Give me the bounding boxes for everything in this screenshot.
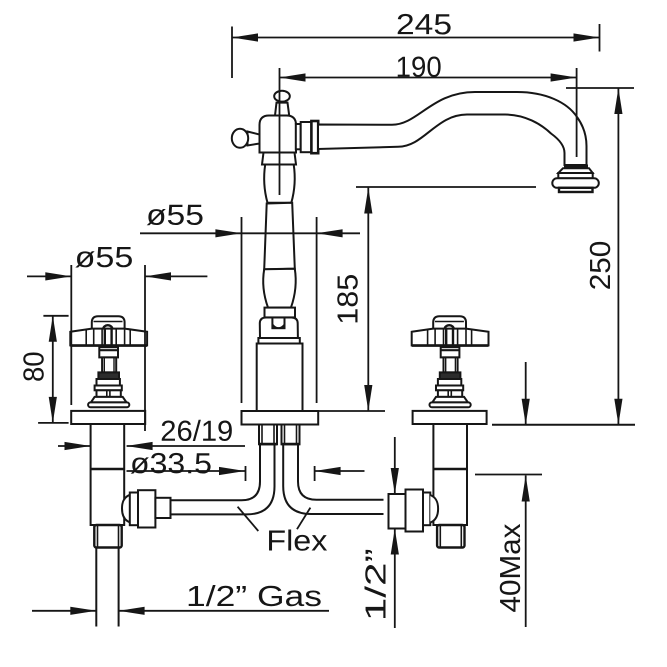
stem arch (103, 325, 112, 329)
dimension 190 (280, 52, 577, 195)
svg-text:ø55: ø55 (75, 242, 134, 274)
bell base (430, 402, 471, 407)
dimension 1/2 right (360, 437, 399, 628)
bottom nipple (94, 525, 121, 548)
left handle group (70, 316, 147, 547)
column baluster 1 (264, 165, 295, 203)
ring 2 (438, 379, 461, 386)
right handle group (412, 316, 489, 547)
svg-text:80: 80 (18, 351, 50, 382)
svg-text:1/2” Gas: 1/2” Gas (186, 581, 322, 613)
svg-text:ø55: ø55 (146, 200, 204, 232)
center tail nipple left (259, 425, 277, 445)
svg-text:250: 250 (585, 241, 617, 291)
dimension 80 (18, 316, 68, 423)
base plate (71, 411, 145, 424)
cross wings (70, 329, 147, 346)
body band (258, 338, 299, 344)
right union fitting (389, 490, 439, 532)
nozzle cap (559, 188, 593, 192)
dimension center ø55 (140, 200, 360, 403)
left union fitting (122, 490, 171, 527)
spout ball knob (274, 91, 290, 102)
spout tube (318, 92, 587, 165)
svg-text:ø33.5: ø33.5 (130, 448, 212, 480)
flex leader left (238, 507, 259, 531)
dimension 250 (566, 88, 634, 425)
base plate (413, 411, 487, 424)
cartridge notch (272, 318, 284, 329)
dark ring (98, 372, 119, 379)
spout head body (260, 116, 297, 153)
nozzle band (558, 173, 592, 178)
svg-text:190: 190 (396, 52, 442, 84)
side knob (232, 129, 248, 148)
svg-text:245: 245 (396, 9, 452, 41)
svg-text:1/2”: 1/2” (360, 548, 392, 621)
dimension 1/2 Gas (32, 581, 329, 615)
bottom nipple (437, 525, 464, 548)
left tail pipe (96, 548, 118, 627)
block row (438, 390, 462, 397)
nozzle torus (552, 178, 599, 188)
stem arch (445, 325, 454, 329)
dimension 185 (319, 187, 537, 411)
svg-text:185: 185 (333, 274, 365, 325)
cross wings (412, 329, 489, 346)
bonnet neck (441, 347, 460, 357)
nozzle end band (564, 165, 588, 169)
cartridge top (260, 318, 298, 339)
block row (97, 390, 121, 397)
svg-text:40Max: 40Max (495, 523, 527, 613)
flex hose right (283, 444, 383, 514)
spout ball stem (275, 103, 289, 116)
bonnet neck (99, 347, 118, 357)
side knob cone (248, 132, 260, 146)
ring 3 (436, 386, 463, 391)
spout connection ring B (301, 122, 312, 152)
dimension ø33.5 (127, 448, 365, 481)
cap inner line (94, 321, 123, 323)
bell flare (432, 397, 468, 403)
cap inner line (435, 321, 464, 323)
center body (257, 344, 303, 412)
svg-text:Flex: Flex (266, 525, 328, 557)
spout connection ring A (296, 124, 301, 149)
counter line (492, 424, 635, 426)
handle cap (92, 316, 125, 329)
flex leader right (297, 508, 310, 530)
bell flare (91, 397, 127, 403)
ring 2 (97, 379, 120, 386)
head skirt (262, 153, 296, 165)
valve body (91, 424, 125, 525)
column collar (265, 308, 296, 318)
ring 3 (95, 386, 122, 391)
spout connection ring C (311, 121, 318, 153)
valve body (433, 424, 467, 525)
nozzle flare (558, 168, 592, 173)
column baluster 2 (263, 269, 296, 308)
bonnet stem (102, 357, 116, 372)
dimension left ø55 (27, 242, 207, 431)
bell base (88, 402, 129, 407)
column cone (264, 203, 295, 269)
center base plate (242, 411, 319, 425)
svg-text:26/19: 26/19 (160, 416, 233, 448)
dark ring (440, 372, 461, 379)
handle cap (433, 316, 466, 329)
flex hose left (171, 444, 275, 514)
dimension 245 (232, 9, 600, 78)
dimension 26/19 (58, 416, 245, 450)
dimension 40Max (475, 362, 542, 627)
bonnet stem (444, 357, 458, 372)
center tail nipple right (282, 425, 300, 445)
